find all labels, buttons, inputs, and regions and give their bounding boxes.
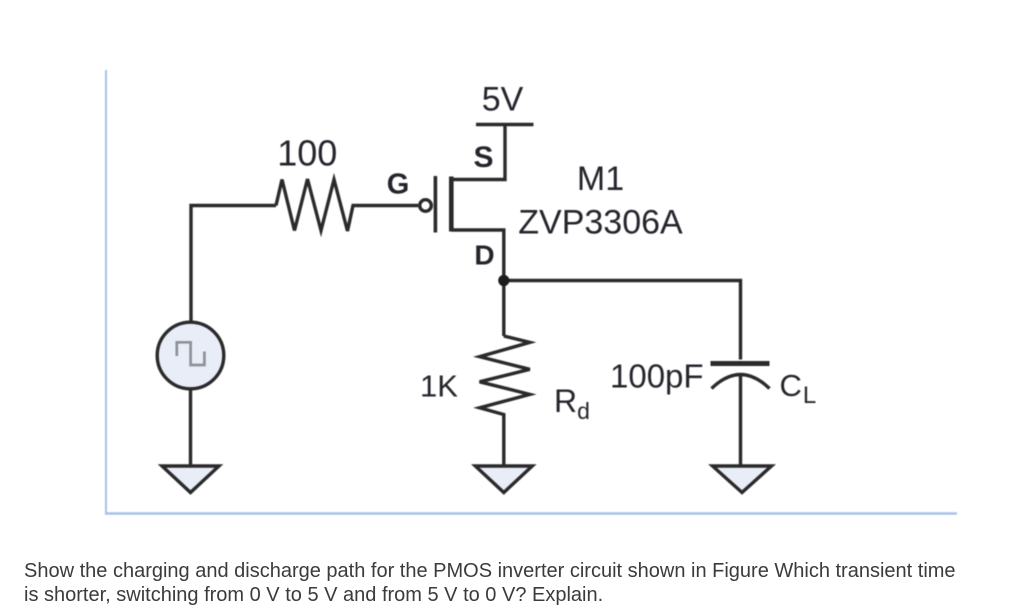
svg-text:100: 100 xyxy=(277,133,337,174)
svg-text:Rd: Rd xyxy=(554,383,590,424)
svg-text:D: D xyxy=(474,240,494,271)
svg-text:M1: M1 xyxy=(577,160,624,198)
svg-text:ZVP3306A: ZVP3306A xyxy=(518,204,683,242)
svg-text:CL: CL xyxy=(780,368,817,409)
svg-text:5V: 5V xyxy=(482,81,524,119)
svg-text:100pF: 100pF xyxy=(610,358,704,395)
svg-text:1K: 1K xyxy=(420,369,458,404)
svg-text:G: G xyxy=(387,169,410,201)
svg-text:S: S xyxy=(473,141,493,174)
